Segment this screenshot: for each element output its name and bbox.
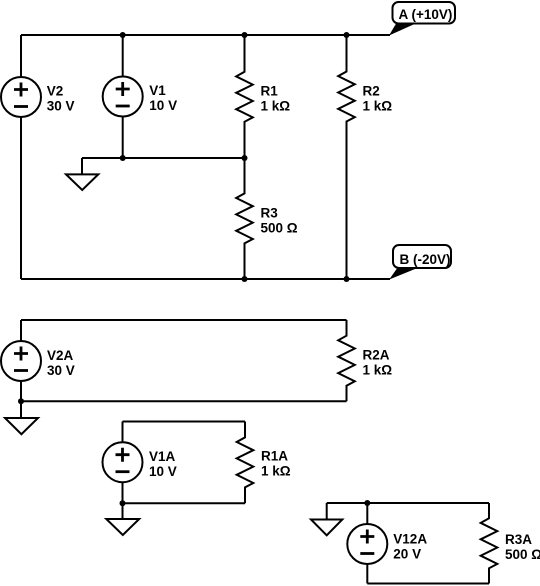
- node B (-20V) callout: [389, 245, 451, 280]
- svg-text:R1A: R1A: [261, 448, 288, 463]
- svg-text:1 kΩ: 1 kΩ: [363, 98, 393, 113]
- svg-text:1 kΩ: 1 kΩ: [261, 463, 291, 478]
- wire left rail upper circuit 1: [20, 35, 22, 77]
- svg-text:10 V: 10 V: [149, 98, 177, 113]
- ground circuit 3: [106, 503, 139, 535]
- svg-text:500 Ω: 500 Ω: [261, 220, 298, 235]
- ground circuit 1: [66, 158, 98, 190]
- ground circuit 4: [311, 503, 342, 535]
- wire bottom rail circuit 2: [21, 400, 347, 402]
- wire left upper circuit 2: [20, 320, 22, 341]
- svg-text:10 V: 10 V: [149, 464, 177, 479]
- wire top rail circuit 4: [327, 502, 489, 504]
- wire bottom rail circuit 4: [367, 583, 489, 585]
- junction dot ground node circuit 3: [120, 500, 126, 506]
- wire V1 bottom stub: [122, 117, 124, 159]
- svg-text:1 kΩ: 1 kΩ: [363, 363, 393, 378]
- junction dot R3 bottom: [242, 276, 248, 282]
- junction dot ground node circuit 2: [18, 398, 24, 404]
- svg-text:V1A: V1A: [149, 449, 176, 464]
- wire left lower circuit 2: [20, 381, 22, 401]
- wire V12A top stub: [366, 503, 368, 524]
- resistor R1: [236, 35, 290, 158]
- svg-text:B (-20V): B (-20V): [400, 252, 451, 267]
- svg-text:30 V: 30 V: [47, 363, 75, 378]
- junction dot V1 top: [120, 32, 126, 38]
- svg-text:R2A: R2A: [363, 348, 390, 363]
- ground circuit 2: [5, 401, 38, 434]
- junction dot V12A top: [364, 500, 370, 506]
- svg-text:1 kΩ: 1 kΩ: [261, 99, 291, 114]
- wire top rail circuit 1: [21, 34, 390, 36]
- voltage source V2: [1, 77, 74, 117]
- voltage source V1A: [103, 442, 177, 482]
- svg-text:A (+10V): A (+10V): [399, 7, 453, 22]
- voltage source V1: [103, 77, 177, 117]
- wire bottom rail circuit 1: [21, 278, 390, 280]
- svg-text:R2: R2: [363, 83, 380, 98]
- wire top rail circuit 3: [123, 421, 246, 423]
- junction dot R1-R3 node: [242, 155, 248, 161]
- voltage source V2A: [1, 341, 75, 381]
- voltage source V12A: [347, 524, 427, 564]
- wire left rail lower circuit 1: [20, 117, 22, 279]
- svg-text:30 V: 30 V: [47, 99, 75, 114]
- svg-text:20 V: 20 V: [393, 547, 421, 562]
- node A (+10V) callout: [389, 2, 455, 36]
- svg-text:V1: V1: [149, 83, 166, 98]
- svg-text:R3: R3: [261, 205, 279, 220]
- junction dot R2 top: [344, 32, 350, 38]
- wire top rail circuit 2: [21, 319, 347, 321]
- svg-text:V12A: V12A: [393, 532, 427, 547]
- wire V12A bottom stub: [366, 564, 368, 584]
- resistor R2A: [338, 320, 392, 401]
- wire V1 top stub: [122, 35, 124, 77]
- resistor R2: [338, 35, 392, 279]
- wire ground rail circuit 1: [82, 157, 245, 159]
- svg-text:V2A: V2A: [47, 348, 74, 363]
- junction dot R2 bottom: [344, 276, 350, 282]
- wire V1A top stub: [122, 422, 124, 443]
- resistor R3A: [481, 503, 540, 584]
- svg-text:V2: V2: [47, 84, 64, 99]
- svg-text:R3A: R3A: [505, 532, 532, 547]
- junction dot R1 top: [242, 32, 248, 38]
- wire bottom rail circuit 3: [123, 502, 246, 504]
- resistor R1A: [237, 422, 291, 504]
- wire V1A bottom stub: [122, 482, 124, 503]
- svg-text:R1: R1: [261, 84, 279, 99]
- resistor R3: [236, 158, 298, 279]
- junction dot V1 bottom: [120, 155, 126, 161]
- svg-text:500 Ω: 500 Ω: [505, 547, 540, 562]
